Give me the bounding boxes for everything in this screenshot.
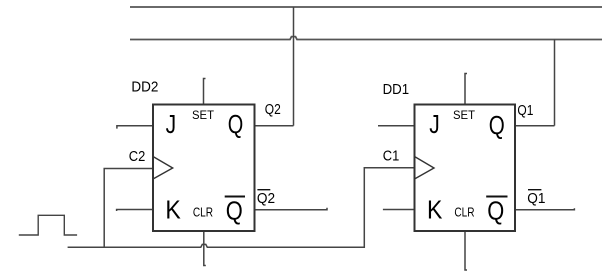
wire: DD1 inverted output Q1-bar <box>515 208 574 209</box>
overbar of net label Q2-bar <box>257 189 270 191</box>
svg-text:SET: SET <box>192 110 214 122</box>
svg-text:K: K <box>427 195 443 225</box>
wire: DD2 J input <box>117 126 153 129</box>
overbar of Q-bar pin label inside DD1 <box>486 196 507 198</box>
svg-text:CLR: CLR <box>454 204 474 219</box>
svg-text:Q: Q <box>489 110 505 140</box>
svg-text:Q1: Q1 <box>527 191 545 207</box>
clock pulse waveform symbol <box>19 215 77 235</box>
svg-text:J: J <box>429 109 440 139</box>
wire: DD2 CLR stub (bottom, crosses clock rail) <box>204 231 206 266</box>
svg-text:C2: C2 <box>129 149 146 165</box>
svg-text:SET: SET <box>453 110 475 122</box>
svg-text:Q: Q <box>487 196 504 226</box>
overbar of net label Q1-bar <box>528 189 541 191</box>
wire: DD1 J input <box>378 125 415 127</box>
wire: DD2 inverted output Q2-bar <box>255 208 328 210</box>
overbar of Q-bar pin label inside DD2 <box>225 196 245 198</box>
svg-text:Q: Q <box>228 109 244 139</box>
wire: DD2 K input <box>117 210 153 212</box>
wire: DD1 K input <box>383 209 415 211</box>
wire: top bus line 2 (with hop over Q2 riser) <box>130 37 602 40</box>
wire: Q2 output horizontal <box>255 125 294 127</box>
wire: DD1 SET stub (top) <box>465 74 467 105</box>
svg-text:J: J <box>166 109 177 139</box>
svg-text:DD1: DD1 <box>383 82 410 98</box>
svg-text:Q2: Q2 <box>257 191 275 207</box>
flip-flop DD2 body <box>153 105 255 232</box>
wire: top bus line 1 <box>130 6 602 8</box>
wire: Q1 output horizontal <box>515 125 555 127</box>
svg-text:C1: C1 <box>383 148 400 164</box>
wire: DD2 C2 branch (from clock rail up to C input) <box>104 169 153 248</box>
wire: Q1 riser from top bus line 2 down <box>554 40 556 126</box>
svg-text:K: K <box>165 195 181 225</box>
wire: DD1 CLR stub (bottom) <box>465 231 467 270</box>
svg-text:Q2: Q2 <box>265 102 281 118</box>
svg-text:Q: Q <box>226 196 243 226</box>
wire: Q2 riser from top bus line 1 down <box>293 7 295 126</box>
flip-flop DD1 body <box>415 105 516 232</box>
flip-flop DD2 clock chevron <box>153 157 173 180</box>
svg-text:CLR: CLR <box>193 204 213 219</box>
wire: clock rail (bottom) with hop over DD2 CLR, riser to C1 of DD1 <box>68 168 415 248</box>
svg-text:DD2: DD2 <box>131 79 158 95</box>
svg-text:Q1: Q1 <box>517 103 533 119</box>
wire: DD2 SET stub (top) <box>204 79 206 105</box>
flip-flop DD1 clock chevron <box>415 157 435 180</box>
